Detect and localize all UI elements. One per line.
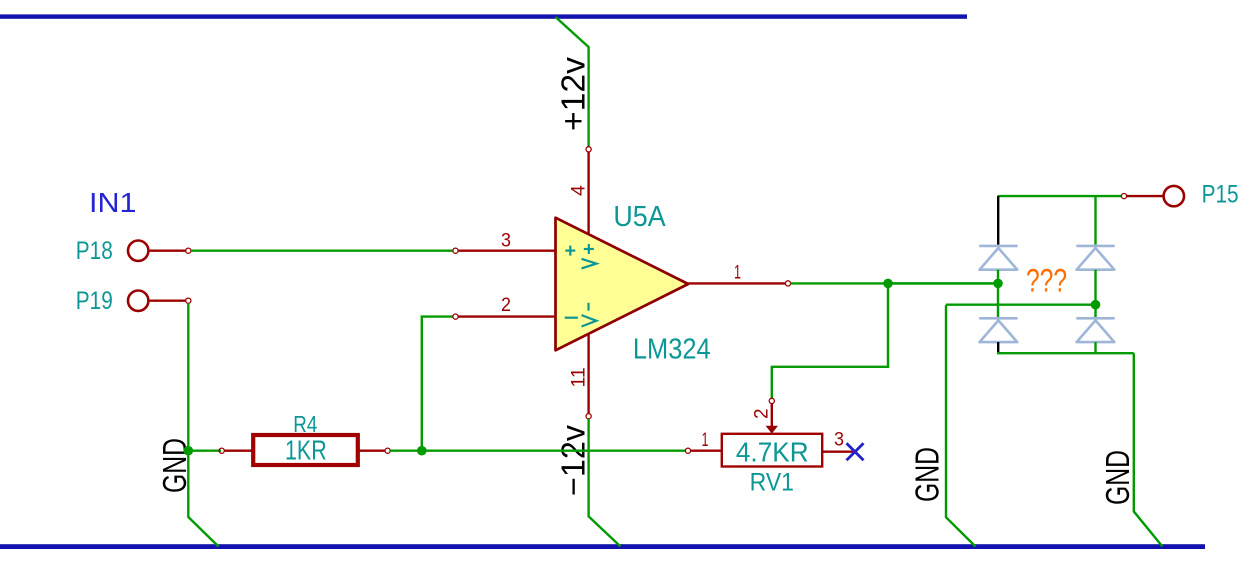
port P19 circle: [128, 291, 148, 311]
op-amp V+ mark: [582, 244, 597, 268]
bridge bottom-right green stub: [1094, 342, 1096, 353]
pin end circle pin3: [453, 248, 458, 253]
op-amp U5A triangle: [556, 218, 689, 351]
bridge top-right green stub: [1094, 196, 1096, 245]
bridge top-left black stub: [997, 196, 999, 245]
wire bridge mid-left row: [888, 282, 998, 284]
op-amp V- mark: [582, 303, 597, 327]
wire junction to R4 pin1: [188, 450, 221, 452]
no-connect cross RV1.3: [847, 443, 864, 460]
op-amp U1 pin 4 wire: [587, 152, 589, 234]
junction bridge right: [1091, 300, 1101, 310]
bridge bottom rail wire: [997, 352, 1134, 354]
pin end circle -12v: [586, 414, 591, 419]
port P18 pin wire: [150, 249, 186, 251]
border frame bottom: [0, 544, 1205, 549]
port P19 pin wire: [150, 300, 186, 302]
junction output/wiper: [883, 279, 893, 289]
svg-text:R4: R4: [293, 411, 317, 437]
pin end circle P19: [186, 298, 191, 303]
svg-text:GND: GND: [1099, 450, 1136, 505]
svg-text:???: ???: [1026, 263, 1067, 299]
port P15 pin wire: [1127, 195, 1164, 197]
wire GND2 down to border: [946, 305, 976, 547]
svg-text:+12v: +12v: [555, 56, 592, 131]
resistor R4 body: [253, 435, 358, 465]
wire GND left to border: [188, 451, 218, 547]
diode D top-left: [979, 246, 1017, 270]
diode D bottom-left: [979, 318, 1017, 342]
svg-text:P15: P15: [1202, 180, 1239, 208]
op-amp pin 3 wire: [458, 249, 555, 251]
pin end circle P15: [1121, 194, 1126, 199]
svg-text:−12v: −12v: [555, 425, 592, 496]
bridge top rail wire: [998, 195, 1122, 197]
op-amp pin 11 wire: [587, 334, 589, 414]
op-amp minus input mark: [565, 317, 578, 319]
wire +12v from border: [556, 17, 589, 147]
diode D bottom-right: [1076, 318, 1114, 342]
op-amp plus input mark: [565, 246, 575, 256]
resistor R4 pin 1 wire: [224, 450, 253, 452]
port P18 circle: [128, 241, 148, 261]
potentiometer RV1 body: [722, 434, 822, 467]
resistor R4 pin 2 wire: [358, 450, 385, 452]
port P15 circle: [1164, 186, 1184, 206]
svg-text:IN1: IN1: [89, 187, 137, 218]
potentiometer RV1 wiper pin wire: [771, 404, 773, 428]
bridge bottom-left black stub: [997, 342, 999, 353]
pin end circle R4.1: [219, 448, 224, 453]
svg-text:11: 11: [568, 367, 590, 387]
op-amp pin 2 wire: [458, 315, 555, 317]
op-amp pin 1 output wire: [688, 282, 785, 284]
svg-text:1: 1: [702, 430, 709, 451]
junction bridge left: [993, 279, 1003, 289]
pin end circle +12v: [586, 147, 591, 152]
border frame top: [0, 14, 967, 18]
wire riser to pin 2: [422, 317, 453, 451]
wire bridge left mid: [997, 270, 999, 319]
svg-text:2: 2: [752, 408, 773, 419]
svg-text:3: 3: [501, 230, 511, 251]
junction at P19/R4: [184, 446, 194, 456]
svg-text:RV1: RV1: [750, 469, 794, 497]
wire GND3 down to border: [1134, 353, 1163, 546]
wire -12v to border: [589, 419, 621, 547]
RV1 wiper arrow: [766, 426, 778, 434]
pin end circle RV1.2: [769, 398, 774, 403]
wire output to bridge: [791, 282, 998, 284]
svg-text:P18: P18: [76, 237, 113, 265]
svg-text:LM324: LM324: [633, 334, 711, 366]
pin end circle R4.2: [385, 448, 390, 453]
svg-text:GND: GND: [909, 447, 946, 502]
junction at R4/pin2 riser: [417, 446, 427, 456]
pin end circle RV1.1: [685, 448, 690, 453]
wire P18 to pin3: [191, 249, 453, 251]
wire P19 down to GND net: [187, 303, 189, 450]
svg-text:2: 2: [501, 295, 511, 316]
diode D top-right: [1076, 246, 1114, 270]
svg-text:4: 4: [568, 185, 590, 196]
svg-text:U5A: U5A: [613, 201, 666, 233]
svg-text:1: 1: [734, 263, 741, 284]
potentiometer RV1 pin 1 wire: [691, 450, 722, 452]
svg-text:4.7KR: 4.7KR: [736, 437, 809, 468]
pin end circle pin2: [453, 314, 458, 319]
pin end circle P18: [186, 248, 191, 253]
svg-text:3: 3: [834, 429, 844, 450]
svg-text:P19: P19: [76, 287, 113, 315]
wire output to RV1 wiper: [772, 283, 888, 398]
wire GND2 row: [946, 304, 1096, 306]
svg-text:1KR: 1KR: [285, 435, 327, 466]
pin end circle pin1: [785, 281, 790, 286]
wire R4 to RV1: [390, 450, 685, 452]
potentiometer RV1 pin 3 wire: [822, 451, 855, 453]
wire bridge right mid: [1094, 270, 1096, 319]
